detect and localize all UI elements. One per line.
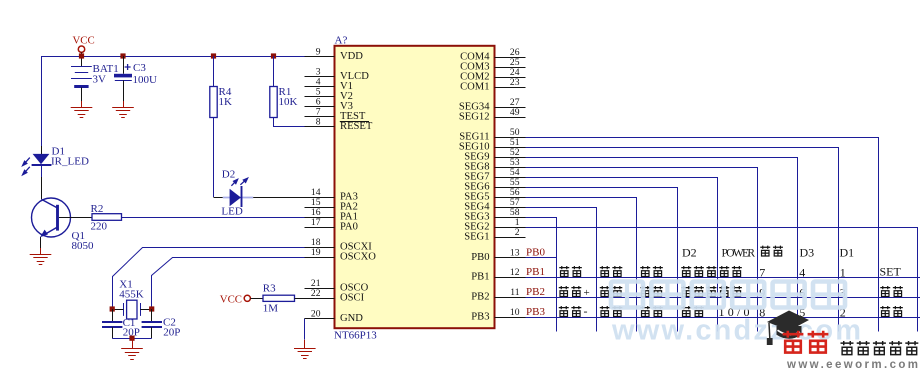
svg-text:www.eeworm.com: www.eeworm.com	[786, 359, 918, 370]
pin 4 V1	[305, 86, 335, 88]
pin 21 OSCO	[305, 288, 335, 290]
svg-text:C3: C3	[133, 62, 146, 74]
capacitor C1 20P	[112, 309, 114, 322]
svg-text:PB2: PB2	[526, 286, 545, 298]
node junction VCC-BAT1	[79, 53, 84, 58]
pin 52 SEG9	[495, 157, 526, 159]
pin 26 COM4	[495, 57, 526, 59]
ground (Q1)	[30, 254, 52, 265]
pin 3 VLCD	[305, 76, 335, 78]
ground (GND pin)	[294, 348, 316, 359]
ground (C3)	[112, 107, 134, 118]
svg-text:SEG12: SEG12	[459, 112, 490, 123]
pin 49 SEG12	[495, 117, 526, 119]
svg-text:455K: 455K	[119, 288, 144, 300]
pin 17 PA0	[305, 227, 335, 229]
svg-text:12: 12	[510, 267, 520, 278]
svg-text:POWER: POWER	[722, 247, 756, 259]
pin 9 VDD	[305, 56, 335, 58]
capacitor C3 100U	[123, 56, 125, 74]
crystal X1 455K	[127, 300, 137, 319]
diode D2 LED	[230, 189, 241, 206]
pin 57 SEG4	[495, 207, 526, 209]
wire net SEG8 column	[526, 168, 758, 332]
node junction VCC-R4	[211, 53, 216, 58]
capacitor C2 20P	[151, 309, 153, 322]
label 菜单	[880, 306, 890, 316]
svg-text:7: 7	[759, 265, 765, 279]
pin 11 PB2	[495, 297, 526, 299]
svg-text:PB0: PB0	[471, 252, 489, 263]
pin 19 OSCXO	[305, 257, 335, 259]
svg-text:49: 49	[510, 107, 520, 118]
pin 14 PA3	[305, 197, 335, 199]
node junction VCC-C3	[120, 53, 125, 58]
svg-text:20: 20	[311, 309, 321, 320]
label 开仓 (matrix)	[760, 246, 770, 256]
svg-text:13: 13	[510, 248, 520, 259]
svg-text:8050: 8050	[72, 240, 95, 252]
svg-text:3V: 3V	[93, 73, 107, 85]
svg-text:PA0: PA0	[340, 222, 358, 233]
resistor R2 220	[92, 214, 122, 221]
label 播放	[681, 306, 691, 316]
pin 12 PB1	[495, 277, 526, 279]
pin 50 SEG11	[495, 137, 526, 139]
svg-text:PB1: PB1	[471, 272, 489, 283]
svg-text:SET: SET	[880, 265, 902, 279]
svg-text:PB0: PB0	[526, 247, 545, 259]
pin 13 PB0	[495, 257, 526, 259]
pin 51 SEG10	[495, 147, 526, 149]
svg-text:220: 220	[91, 220, 108, 232]
label 显示	[600, 266, 610, 276]
label 制式	[880, 286, 890, 296]
pin 18 OSCXI	[305, 247, 335, 249]
wire C1-C2 bottom rail	[112, 338, 152, 340]
logo 电子下载站	[841, 341, 854, 355]
svg-text:PB1: PB1	[526, 266, 545, 278]
label 下一曲	[681, 286, 691, 296]
svg-text:R3: R3	[263, 283, 276, 295]
diode D1 IR_LED	[33, 154, 50, 164]
svg-text:20P: 20P	[163, 326, 180, 338]
wire OSCXO pin 19 to X1 right	[152, 258, 305, 310]
wire net SEG10 column	[526, 148, 839, 332]
pin 54 SEG7	[495, 177, 526, 179]
wire net PB1 row	[526, 277, 920, 279]
pin 53 SEG8	[495, 167, 526, 169]
pin 1 SEG2	[495, 227, 526, 229]
svg-text:100U: 100U	[133, 74, 158, 86]
svg-text:17: 17	[311, 217, 321, 228]
svg-text:1K: 1K	[219, 96, 233, 108]
label 声道	[600, 286, 610, 296]
battery BAT1 3V	[71, 66, 92, 67]
pin 8 RESET	[305, 126, 335, 128]
svg-text:1M: 1M	[263, 303, 279, 315]
pin 20 GND	[305, 318, 335, 320]
label 前进	[640, 286, 650, 296]
wire R2 to PA1 pin 16	[122, 217, 305, 219]
wire net PB0 row	[526, 257, 557, 259]
watermark www.cndzz.com	[611, 282, 861, 347]
wire net SEG5 column	[526, 198, 637, 332]
wire R1 to RESET pin 8	[274, 118, 305, 127]
pin 27 SEG34	[495, 107, 526, 109]
wire Q1 base to R2	[59, 217, 92, 219]
svg-text:VDD: VDD	[340, 51, 363, 62]
node junction bottom rail	[129, 336, 134, 341]
svg-text:VCC: VCC	[73, 35, 95, 47]
wire VCC rail drop to D1	[41, 56, 43, 146]
pin 15 PA2	[305, 207, 335, 209]
wire net SEG2 column	[526, 228, 918, 332]
wire lavender segment under D2	[223, 197, 253, 199]
logo graduation cap	[767, 311, 809, 346]
svg-text:PB2: PB2	[471, 292, 489, 303]
svg-text:RESET: RESET	[340, 121, 373, 132]
svg-text:D2: D2	[682, 245, 697, 259]
pin 24 COM2	[495, 77, 526, 79]
wire D2 cathode to PA3 pin 14	[253, 197, 304, 199]
label 停止	[640, 306, 650, 316]
wire R4 to D2 anode	[213, 118, 215, 198]
wire net SEG11 column	[526, 138, 879, 332]
label 静音	[559, 266, 569, 276]
wire VCC rail	[41, 56, 305, 58]
pin 25 COM3	[495, 67, 526, 69]
pin 16 PA1	[305, 217, 335, 219]
logo 虫虫	[783, 331, 804, 353]
svg-text:23: 23	[510, 77, 520, 88]
pin 58 SEG3	[495, 217, 526, 219]
resistor R3 1M	[263, 295, 295, 301]
svg-text:19: 19	[311, 247, 321, 258]
pin 6 V3	[305, 106, 335, 108]
svg-text:D3: D3	[800, 245, 815, 259]
svg-text:D1: D1	[840, 245, 855, 259]
pin 56 SEG5	[495, 197, 526, 199]
svg-text:VCC: VCC	[220, 293, 242, 305]
wire net PB3 row	[526, 317, 920, 319]
wire OSCXI pin 18 to X1 left	[113, 248, 305, 310]
svg-text:NT66P13: NT66P13	[334, 330, 377, 342]
resistor R1 10K	[270, 87, 277, 118]
pin 10 PB3	[495, 317, 526, 319]
wire net PB2 row	[526, 297, 920, 299]
svg-text:10K: 10K	[279, 96, 298, 108]
svg-text:8: 8	[316, 117, 321, 128]
node junction X1-C2	[149, 306, 154, 311]
svg-text:-: -	[584, 304, 588, 318]
wire VCC to R4	[213, 56, 215, 87]
wire D1 cathode to Q1 collector	[41, 177, 43, 199]
svg-text:OSCI: OSCI	[340, 293, 365, 304]
svg-text:R2: R2	[91, 203, 104, 215]
wire Q1 emitter to ground	[40, 237, 42, 248]
svg-text:22: 22	[311, 288, 321, 299]
svg-text:10: 10	[510, 307, 520, 318]
transistor Q1 8050	[32, 198, 71, 237]
ground (BAT1)	[71, 107, 93, 118]
op-amp U1 body (IC A? NT66P13)	[335, 46, 495, 328]
svg-text:GND: GND	[340, 313, 363, 324]
label 音量-	[559, 306, 569, 316]
svg-text:9: 9	[316, 47, 321, 58]
pin 22 OSCI	[305, 298, 335, 300]
label 后退	[640, 266, 650, 276]
svg-text:COM1: COM1	[460, 82, 489, 93]
svg-text:PB3: PB3	[471, 312, 489, 323]
pin 5 V2	[305, 96, 335, 98]
label 重复	[719, 286, 729, 296]
svg-text:SEG1: SEG1	[464, 232, 489, 243]
pin 23 COM1	[495, 87, 526, 89]
svg-text:PB3: PB3	[526, 306, 545, 318]
node junction X1-C1	[110, 306, 115, 311]
label 上一曲	[681, 266, 691, 276]
node junction VCC-R1	[271, 53, 276, 58]
resistor R4 1K	[210, 87, 217, 118]
pin 55 SEG6	[495, 187, 526, 189]
label 暂停	[719, 266, 729, 276]
svg-text:4: 4	[799, 265, 805, 279]
wire net SEG9 column	[526, 158, 798, 332]
pin 7 TEST	[305, 116, 335, 118]
svg-text:OSCXO: OSCXO	[340, 252, 376, 263]
svg-text:1: 1	[840, 265, 846, 279]
svg-text:11: 11	[510, 287, 519, 298]
wire net SEG4 column	[526, 208, 597, 332]
svg-text:IR_LED: IR_LED	[51, 156, 89, 168]
wire net SEG3 column	[526, 218, 557, 332]
svg-text:2: 2	[515, 227, 520, 238]
svg-text:A?: A?	[335, 34, 348, 46]
wire R3 to OSCI pin 22	[295, 298, 305, 300]
wire VCC to R1	[273, 56, 275, 87]
wire net SEG7 column	[526, 178, 718, 332]
svg-text:D2: D2	[222, 169, 235, 181]
wire GND pin 20 to ground	[304, 319, 306, 340]
label 音量+	[559, 286, 569, 296]
ground (X1)	[132, 338, 134, 349]
svg-text:LED: LED	[221, 206, 242, 218]
wire net SEG6 column	[526, 188, 678, 332]
pin 2 SEG1	[495, 237, 526, 239]
svg-text:+: +	[584, 287, 590, 299]
label 语言	[600, 306, 610, 316]
